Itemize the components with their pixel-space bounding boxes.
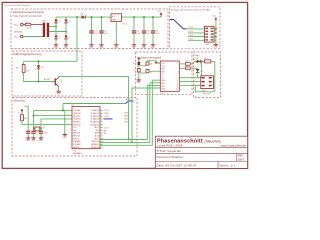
diode D1 [54,20,61,24]
svg-text:Document Number:: Document Number: [157,155,184,159]
junction sec top [55,26,57,28]
wire connector stub 3 [214,36,216,38]
junction rail at 91.5 [91,16,93,18]
svg-text:100k: 100k [26,71,30,73]
svg-text:PB0(ICP): PB0(ICP) [73,147,80,149]
wire porta [34,109,72,111]
svg-text:100n: 100n [104,33,108,35]
svg-text:T: T [177,77,178,79]
svg-text:Trafo: Hahn BV EI 302 2x9V: Trafo: Hahn BV EI 302 2x9V [13,15,42,18]
svg-text:100n: 100n [137,33,141,35]
svg-text:GND: GND [142,47,147,49]
svg-text:230V/AC: 230V/AC [14,30,23,33]
svg-text:C6: C6 [133,63,135,65]
svg-text:www.lucas-pless.de: www.lucas-pless.de [221,144,247,148]
svg-text:R5: R5 [186,65,188,67]
wire r6 up to pin [148,61,161,63]
wire mains N [23,36,43,38]
capacitor C3 100n [132,31,141,36]
svg-text:Steuerung: Steuerung [14,100,26,103]
svg-text:4: 4 [177,71,178,73]
wire timer down [132,88,160,142]
wire xtal1 node [33,110,35,128]
svg-text:GND: GND [63,137,68,139]
optocoupler OK1 [201,76,214,96]
wire R3 top stub [23,61,25,64]
net labels isp [125,113,130,124]
wire vcc column C8 [25,106,29,131]
svg-text:GND: GND [99,47,104,49]
resistor R5 [186,65,191,69]
capacitor C8 [26,131,30,133]
wire C3 top [133,17,135,30]
svg-text:Date: 06.03.2007 13:58:07: Date: 06.03.2007 13:58:07 [157,163,197,167]
capacitor C4 10u [142,31,150,36]
wire connector gnd [214,40,216,43]
svg-text:REV:: REV: [238,155,244,158]
junction zc join [128,139,130,141]
ground under C2 [99,43,104,49]
wire collector up and right to B6 [59,76,129,77]
wire C3 bottom [133,34,135,44]
power supply section box B1 [11,9,168,49]
wire R4 to B7 [190,61,194,64]
wire emitter [58,86,60,89]
wire secondary top [49,26,56,28]
ground under C1 [89,43,94,49]
zero crossing section box B3 [12,51,82,96]
svg-text:PB4(MISO): PB4(MISO) [91,144,99,146]
svg-text:22p: 22p [44,133,47,135]
fuse F1 [25,22,32,30]
diode D7 zener [37,61,45,81]
junction xtal1 tee [33,115,35,117]
wire C5 bottom [152,34,154,44]
svg-text:GND: GND [39,140,44,142]
connector SV1 [205,26,215,46]
supply flag IC3 [155,61,158,63]
wire IC3 out2 [179,67,185,69]
svg-text:Sheet: 1/1: Sheet: 1/1 [220,163,236,167]
wire bridge column 1 [55,17,57,43]
svg-text:IC3: IC3 [161,93,164,95]
wire agnd column [64,110,66,133]
svg-text:MOSI: MOSI [162,80,167,82]
IC3 box [160,61,200,95]
svg-text:PD2(INT0): PD2(INT0) [73,119,81,121]
svg-text:PD1(TXD): PD1(TXD) [73,116,81,118]
wire lcd net 3 [188,36,205,38]
wire c7 to r7 [140,72,146,74]
svg-text:470u: 470u [94,33,98,35]
junction raw tap [76,16,78,18]
junction sv1 mid2 [215,36,217,38]
svg-text:250mA: 250mA [26,27,32,30]
svg-text:D8: D8 [196,58,198,60]
svg-text:Lucas Pleß / 2006: Lucas Pleß / 2006 [157,144,183,148]
wire C4 bottom [143,34,145,44]
wire C9 bottom [33,134,35,137]
supply flag VCC rail end [158,11,163,17]
junction sv1 pin [215,28,217,30]
svg-text:GND: GND [31,140,36,142]
junction xtal node2 [40,128,42,130]
capacitor C6 [133,62,140,65]
svg-text:GND: GND [214,47,219,49]
interface section box B6 [136,52,193,95]
svg-text:GND: GND [132,47,137,49]
wire blue display data [170,20,187,29]
wire b7 top [195,60,205,62]
wire R3 bottom to base [24,73,55,82]
svg-text:LCD5: LCD5 [189,31,193,33]
svg-text:10: 10 [176,89,178,91]
junction opto top [201,60,203,62]
svg-text:LCD4: LCD4 [104,110,109,112]
svg-text:1: 1 [177,63,178,65]
wire IC3 vcc stub [156,62,160,64]
junction timer join [131,141,133,143]
wire lcd net 2 [188,32,205,34]
svg-text:GND: GND [26,140,31,142]
svg-text:TITLE: steuerteil: TITLE: steuerteil [157,149,182,153]
svg-text:GND: GND [56,93,61,95]
wire d9 bottom [198,73,201,78]
wire raw top B3 [24,60,77,62]
svg-text:LCD6: LCD6 [189,35,193,37]
svg-text:PD5(T1): PD5(T1) [73,138,79,140]
junction sv1 mid [215,32,217,34]
svg-text:BC547: BC547 [44,79,51,81]
wire avcc top [63,103,126,105]
svg-text:GND: GND [151,47,156,49]
supply flag reset pullup [18,109,23,114]
wire blue adc net [126,101,134,104]
ground connector [214,43,219,49]
ground C8 [26,136,31,142]
sheet frame [2,2,247,168]
svg-text:Anschluss Leistungsteil: Anschluss Leistungsteil [137,56,161,59]
ground under C4 [142,43,147,49]
voltage regulator IC1 7805 [111,14,127,26]
svg-text:10k: 10k [150,71,153,73]
svg-text:100n: 100n [156,33,160,35]
wire reset to IC2 [22,121,72,125]
diode D2 [54,36,61,40]
svg-text:GND: GND [64,47,69,49]
wire c6 to r6 [140,65,146,67]
svg-text:PB3(MOSI): PB3(MOSI) [91,147,99,149]
terminal X1-2 [14,35,23,38]
title block text [157,139,247,168]
wire xtal2 [41,119,72,129]
wire r9 to opto right rail [211,61,215,91]
svg-text:R11: R11 [18,113,21,115]
wire C2 top [101,17,103,30]
wire C1 bottom [91,34,93,44]
microcontroller IC2 MEGA8 [72,107,103,149]
wire connector right rail [215,29,217,40]
wire IC3 out1 [179,63,185,65]
svg-text:LCD5: LCD5 [104,113,109,115]
terminal X1-1 [14,23,23,26]
crystal Q1 [34,127,45,131]
svg-text:78L05: 78L05 [122,24,127,26]
title block [155,136,247,168]
svg-text:D1: D1 [58,21,60,23]
svg-text:MEGA8-P: MEGA8-P [73,152,83,155]
svg-text:C7: C7 [133,70,135,72]
svg-text:D3: D3 [68,21,70,23]
svg-text:R9: R9 [204,58,206,60]
svg-text:PB5(SCK): PB5(SCK) [92,141,100,143]
svg-text:LCD7: LCD7 [189,39,193,41]
svg-text:Phasenanschnitt Steuerteil: Phasenanschnitt Steuerteil [5,4,32,7]
controller section box B4 [12,97,137,156]
svg-text:LCD4: LCD4 [189,27,193,29]
wire opto bottom loop [195,86,215,92]
svg-text:Nulldurchgangserkennung: Nulldurchgangserkennung [14,53,43,56]
wire C2 bottom [101,34,103,44]
svg-text:LCD6: LCD6 [104,116,109,118]
ground bridge1 [54,43,59,49]
wire opto left bottom pin [195,85,201,87]
junction sec bottom [65,31,67,33]
svg-text:GND: GND [89,47,94,49]
wire b6 left column [138,59,140,78]
wire r7 to pin [149,70,160,72]
transformer TR1 [42,21,49,37]
wire zerocross down [128,76,130,139]
svg-text:PB7(XT2): PB7(XT2) [73,136,80,138]
resistor R6 [146,62,153,66]
svg-text:GND: GND [137,82,142,84]
wire bridge column 2 [65,17,67,43]
ground under C5 [151,43,156,49]
junction base node [38,81,40,83]
svg-text:D2: D2 [58,37,60,39]
svg-text:GND: GND [54,47,59,49]
wire R5 to D9 [190,67,197,69]
wire isp1 [100,85,160,139]
svg-text:T1: T1 [162,77,164,79]
diode D8 [196,58,201,63]
ground C9 [31,136,36,142]
resistor R9 [204,58,211,63]
ground transistor [56,90,61,96]
ground regulator [114,43,119,49]
IC2 label [73,151,83,156]
junction xtal node1 [33,128,35,130]
net labels lcd [189,27,193,40]
svg-text:R4: R4 [186,61,188,63]
wire C5 top [152,17,154,30]
resistor R8 reset pullup [21,112,27,121]
net labels IC2 right [104,110,109,135]
svg-text:Display- und Tastenanschluss (: Display- und Tastenanschluss (LCD 4bit) [171,8,211,11]
supply flag connector [213,16,218,20]
svg-text:GND: GND [114,47,119,49]
wire +raw rail [56,16,161,18]
transistor T1 [44,78,63,87]
svg-text:Q1: Q1 [43,127,45,129]
svg-text:Netzspannungsversorgung: Netzspannungsversorgung [13,10,45,14]
junction rail at 134 [133,16,135,18]
wire connector vcc [214,20,216,29]
resistor R7 [146,70,153,74]
wire connector stub 2 [214,32,216,34]
svg-text:03/07: 03/07 [238,158,245,161]
wire xtal2 cap [40,129,42,131]
wire lcd net 4 [188,39,205,41]
wire d9 top [197,67,199,70]
wire mains L [23,24,43,26]
diode D9 [196,69,203,73]
wire regulator gnd [115,22,117,44]
svg-text:PD4(XCK): PD4(XCK) [73,124,81,126]
svg-text:PB6(XT1): PB6(XT1) [73,133,80,135]
resistor R3 [16,65,30,73]
display connector section box B2 [170,7,221,49]
wire isp3 [100,80,160,145]
capacitor C5 100n [151,31,160,36]
junction zener top [38,60,40,62]
wire lcd net 1 [187,28,205,30]
triac driver section box B7 [194,52,221,98]
wire C10 bottom [40,134,42,137]
diode D4 [64,36,71,40]
diode D5 [81,13,86,19]
wire C4 top [143,17,145,30]
wire portb [34,115,72,117]
wire raw dc down to B3 [76,17,78,61]
svg-text:PD3(INT1): PD3(INT1) [73,121,81,123]
junction rail at 101.5 [101,16,103,18]
wire blue sda [104,118,113,120]
wire C8 bottom [27,134,29,137]
svg-text:D4: D4 [68,37,70,39]
ground C10 [39,136,44,142]
wire isp2 [100,83,160,143]
wire secondary bottom [49,31,66,33]
resistor R4 [186,61,191,65]
ground under C3 [132,43,137,49]
wire xtal1 cap [33,129,35,131]
capacitor C1 470u [89,31,98,36]
svg-text:MOC3020: MOC3020 [203,94,211,96]
junction avcc tee [62,109,64,111]
svg-text:PD0(RXD): PD0(RXD) [73,113,81,115]
svg-text:IC2: IC2 [71,105,74,107]
wire C1 top [91,17,93,30]
capacitor C10 [39,131,48,134]
svg-text:T: T [177,85,178,87]
junction rail at 144 [143,16,145,18]
wire opto top pin [201,61,203,75]
svg-text:T0: T0 [162,74,164,76]
wire avcc drop [62,104,64,111]
ground B6 [137,78,142,84]
ground agnd [63,133,68,139]
junction rail at 153 [152,16,154,18]
svg-text:PC6(RES): PC6(RES) [73,110,81,112]
svg-text:LCD7: LCD7 [104,128,109,130]
svg-text:10k: 10k [150,64,153,66]
svg-text:10u: 10u [147,33,150,35]
capacitor C9 [31,131,35,133]
diode D3 [64,20,71,24]
supply flag b6 [138,58,140,60]
svg-text:INT0: INT0 [162,71,165,73]
capacitor C2 100n [99,31,108,36]
capacitor C7 [133,69,140,72]
ground bridge2 [64,43,69,49]
svg-text:10k: 10k [24,118,27,120]
svg-text:T: T [177,81,178,83]
